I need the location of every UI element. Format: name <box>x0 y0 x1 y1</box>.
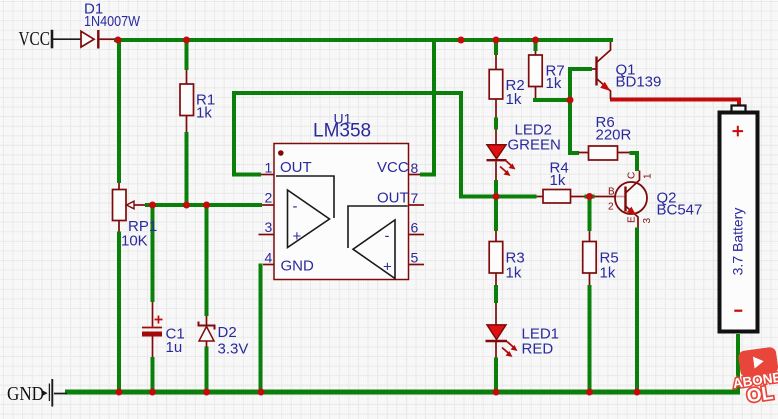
wire LED1 pins <box>495 303 497 358</box>
LED LED1 <box>486 325 560 358</box>
node Q1 base junction <box>567 97 574 104</box>
transistor Q2 <box>608 171 702 228</box>
svg-text:GREEN: GREEN <box>508 137 561 154</box>
battery plus sign <box>733 126 744 137</box>
wire bus RP1 wiper to pin2 <box>145 203 262 207</box>
wire battery minus to ground <box>736 334 740 392</box>
wire R1 stubs <box>186 70 188 132</box>
U1 pin numbers 1-8 <box>265 160 419 266</box>
wire R4 to Q2 base <box>595 196 626 198</box>
svg-text:1: 1 <box>643 173 654 179</box>
wire Q2 emitter to ground <box>635 228 639 393</box>
wire LED1 cathode to ground <box>494 358 498 393</box>
wire R4 stubs <box>537 196 585 198</box>
wire U1 pin5 stub <box>409 264 425 266</box>
capacitor C1 <box>142 316 185 357</box>
wire RP1 top column <box>117 42 121 183</box>
wire R2 top <box>494 42 498 55</box>
label Q2 pin names C1 B2 E3 <box>627 172 654 224</box>
svg-text:7: 7 <box>411 190 419 206</box>
svg-text:LM358: LM358 <box>313 121 371 142</box>
resistor R5 <box>583 242 619 282</box>
LED LED2 <box>487 122 561 177</box>
wire C1 top column <box>151 205 155 302</box>
U1 pin1 marker dot <box>278 150 284 156</box>
wire R7 stubs <box>535 51 537 98</box>
node bus junctions <box>149 202 156 209</box>
svg-text:1N4007W: 1N4007W <box>84 13 141 30</box>
svg-text:-: - <box>385 228 390 245</box>
wire R1 top <box>185 42 189 70</box>
svg-text:3: 3 <box>265 219 273 235</box>
zener diode D2 <box>199 322 249 358</box>
wire LED2 node to R4 <box>459 195 537 199</box>
wire R6 stubs <box>579 152 630 154</box>
resistor R6 <box>589 114 632 160</box>
wire U1 pin6 stub <box>409 234 425 236</box>
svg-text:D2: D2 <box>218 324 237 341</box>
wire LED2 pins <box>495 130 497 181</box>
svg-text:2: 2 <box>265 190 273 206</box>
svg-text:1u: 1u <box>166 339 183 356</box>
U1 internal op-amp triangles <box>276 176 408 279</box>
wire Q1 emitter to battery plus (red) <box>610 100 739 108</box>
svg-text:+: + <box>383 259 392 276</box>
potentiometer RP1 <box>113 190 158 250</box>
svg-text:GND: GND <box>281 258 315 275</box>
U1 body outline <box>274 144 409 280</box>
wire U1 pin2 stub <box>262 204 274 206</box>
resistor R1 <box>180 84 215 122</box>
op-amp U1 <box>265 111 419 280</box>
wire D1 cathode to rail <box>99 38 114 40</box>
svg-text:BD139: BD139 <box>616 74 662 91</box>
wire R7 top <box>534 42 538 51</box>
svg-text:B: B <box>608 187 615 198</box>
battery minus sign <box>734 310 742 312</box>
wire R5 top <box>588 198 592 231</box>
wire Q1 base stub <box>592 68 596 70</box>
node ground rail junctions <box>116 389 123 396</box>
svg-text:C: C <box>627 172 638 179</box>
wire Q1 base riser <box>570 69 592 102</box>
svg-text:RED: RED <box>522 341 554 358</box>
wire RP1 wiper line <box>134 204 145 206</box>
battery BT1 <box>720 106 758 332</box>
wire D2 bottom <box>205 347 209 393</box>
wire U1 pin1 stub <box>261 174 274 176</box>
svg-text:1k: 1k <box>506 265 522 282</box>
svg-text:1k: 1k <box>196 105 212 122</box>
wire R5 stubs <box>589 231 591 285</box>
wire D2 pins <box>206 316 208 347</box>
wire VCC top rail <box>114 38 613 42</box>
node VCC rail junctions <box>115 37 122 44</box>
subscribe logo <box>729 346 778 409</box>
battery plus terminal notch <box>732 106 746 113</box>
svg-text:BC547: BC547 <box>657 202 703 219</box>
wire R2 stubs <box>495 55 497 118</box>
svg-text:3.7 Battery: 3.7 Battery <box>730 208 746 276</box>
wire ground rail <box>65 390 740 395</box>
wire R5 bottom to ground <box>588 285 592 392</box>
svg-text:8: 8 <box>411 160 419 176</box>
wire U1 pin1 out <box>234 93 461 197</box>
wire C1 bottom <box>151 357 155 392</box>
svg-text:+: + <box>293 228 302 245</box>
wire R2 to LED2 <box>494 118 498 130</box>
wire D2 top column <box>205 205 209 316</box>
svg-text:-: - <box>293 198 298 215</box>
battery body <box>720 113 758 332</box>
node Q2 base junction <box>586 193 593 200</box>
wire U1 pin4 to ground <box>259 264 263 393</box>
svg-text:OUT: OUT <box>377 190 409 207</box>
resistor R4 <box>543 160 571 204</box>
wire U1 pin8 stub <box>409 174 421 176</box>
wire LED2 cathode down <box>494 180 498 231</box>
wire node to R6 <box>570 100 579 153</box>
U1 internal pin labels OUT VCC GND <box>280 159 409 276</box>
wire R3 stubs <box>495 231 497 285</box>
port GND <box>49 379 52 407</box>
resistor R2 <box>489 70 524 109</box>
svg-text:GND: GND <box>7 384 44 405</box>
port VCC <box>51 30 54 49</box>
node LED2 junction <box>493 193 500 200</box>
svg-text:3.3V: 3.3V <box>218 341 249 358</box>
wire U1 pin3 stub <box>259 234 275 236</box>
wire R6 to Q2 collector <box>630 153 638 171</box>
wire U1 pin4 stub <box>263 264 274 266</box>
resistor R3 <box>489 242 524 282</box>
svg-text:E: E <box>627 216 638 223</box>
resistor R7 <box>529 55 565 92</box>
svg-text:1k: 1k <box>546 75 562 92</box>
wire R7 bottom horizontal <box>533 98 572 102</box>
wire GND port black <box>54 393 67 395</box>
svg-text:2: 2 <box>608 202 614 213</box>
svg-text:1k: 1k <box>506 91 522 108</box>
svg-text:1: 1 <box>265 160 273 176</box>
svg-text:1k: 1k <box>600 265 616 282</box>
wire R1 bottom to bus <box>185 132 189 205</box>
svg-text:4: 4 <box>265 250 273 266</box>
svg-text:OL: OL <box>745 383 774 408</box>
wire RP1 pins <box>118 183 120 232</box>
wire C1 pins <box>152 302 154 357</box>
transistor Q1 <box>597 42 662 99</box>
wire RP1 bottom to ground <box>117 232 121 393</box>
svg-text:220R: 220R <box>596 127 632 144</box>
svg-text:10K: 10K <box>121 233 148 250</box>
svg-text:6: 6 <box>411 220 419 236</box>
svg-text:VCC: VCC <box>19 29 51 50</box>
svg-text:VCC: VCC <box>377 159 409 176</box>
diode D1 <box>81 1 141 49</box>
svg-text:3: 3 <box>642 218 653 224</box>
svg-text:1k: 1k <box>550 172 566 189</box>
svg-text:OUT: OUT <box>280 159 312 176</box>
wire U1 pin7 stub <box>409 204 425 206</box>
wire Q2 base node <box>585 195 595 199</box>
wire U1 pin8 to VCC rail <box>420 42 434 175</box>
wire VCC port black <box>53 38 81 40</box>
svg-text:5: 5 <box>411 250 419 266</box>
wire R3 bottom to LED1 <box>494 285 498 303</box>
